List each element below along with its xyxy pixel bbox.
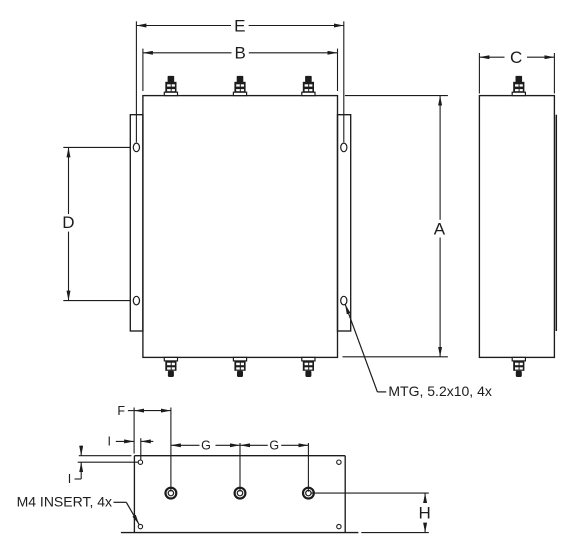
dimension G1 line with arrows: [171, 444, 240, 446]
svg-text:F: F: [117, 404, 125, 418]
dimension F extension line right (to bushing 1): [170, 408, 172, 492]
bottom view connector bushing 2: [235, 488, 246, 499]
bottom view connector bushing 1: [166, 488, 177, 499]
svg-text:G: G: [269, 439, 279, 453]
right mounting flange: [338, 115, 351, 331]
mounting slot bottom-right: [341, 296, 347, 305]
mounting slot bottom-left: [133, 296, 139, 305]
svg-text:A: A: [434, 219, 446, 238]
left mounting flange: [130, 115, 143, 331]
dimension B extension line right: [337, 49, 339, 91]
svg-text:E: E: [234, 16, 245, 35]
dimension C extension line right: [553, 53, 555, 94]
M4 insert hole top-left: [138, 460, 142, 464]
side view bottom connector: [512, 357, 525, 377]
dimension A extension line bottom: [343, 356, 448, 358]
leader MTG, 5.2x10, 4x: [345, 304, 386, 392]
dimension A extension line top: [345, 95, 448, 97]
dimension E line with arrows: [136, 25, 343, 27]
svg-text:H: H: [418, 503, 430, 522]
leader M4 INSERT: [114, 502, 140, 524]
bottom view top edge extension (left): [79, 455, 132, 457]
svg-text:D: D: [62, 213, 74, 232]
dimension H line with arrows: [424, 493, 426, 532]
dimension B line with arrows: [143, 52, 338, 54]
svg-text:B: B: [235, 44, 246, 63]
dimension D extension line bottom: [63, 300, 130, 302]
dimension H extension line bottom: [361, 532, 429, 534]
front view enclosure body: [143, 96, 338, 358]
dimension F extension line left: [133, 408, 135, 454]
dimension G extension line (bushing 2): [239, 443, 241, 492]
side view enclosure body: [479, 96, 554, 358]
dimension I arrows: [116, 440, 154, 442]
mounting slot top-left: [133, 143, 139, 152]
dimension H extension line top (from bushing 3): [311, 492, 429, 494]
dimension E extension line left: [135, 21, 137, 142]
dimension F line with arrows: [128, 410, 171, 412]
M4 hole extension line (left): [78, 461, 138, 463]
dimension D line with arrows: [68, 147, 70, 300]
dimension G extension line (bushing 3): [307, 443, 309, 492]
dimension C extension line left: [478, 53, 480, 94]
M4 insert hole bottom-left: [138, 524, 142, 528]
top terminal connector 2: [233, 76, 246, 96]
bottom terminal connector 1: [164, 357, 177, 377]
dimension I extension line (hole): [140, 438, 142, 460]
svg-text:I: I: [68, 472, 71, 486]
M4 insert hole bottom-right: [337, 524, 341, 528]
bottom view connector bushing 3: [303, 488, 314, 499]
svg-text:G: G: [201, 439, 211, 453]
dimension D extension line top: [63, 146, 130, 148]
mounting slot top-right: [341, 143, 347, 152]
svg-text:MTG, 5.2x10, 4x: MTG, 5.2x10, 4x: [388, 383, 491, 399]
dimension A line with arrows: [439, 96, 441, 357]
dimension G2 line with arrows: [240, 444, 308, 446]
bottom terminal connector 2: [233, 357, 246, 377]
side view flange edge line: [555, 115, 557, 331]
dimension I vertical arrows: [75, 446, 82, 480]
bottom terminal connector 3: [302, 357, 315, 377]
bottom view base line with flange tips: [121, 532, 359, 534]
top terminal connector 1: [164, 76, 177, 96]
svg-text:C: C: [510, 48, 522, 67]
M4 insert hole top-right: [337, 460, 341, 464]
dimension E extension line right: [343, 21, 345, 142]
dimension B extension line left: [142, 49, 144, 91]
svg-text:I: I: [108, 435, 111, 449]
bottom view body outline: [134, 456, 345, 533]
side view top connector: [512, 76, 525, 96]
svg-text:M4 INSERT, 4x: M4 INSERT, 4x: [17, 494, 112, 510]
dimension C line with arrows: [479, 56, 554, 58]
top terminal connector 3: [302, 76, 315, 96]
